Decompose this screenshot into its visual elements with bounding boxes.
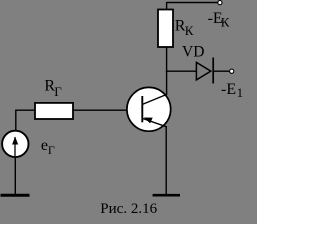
svg-text:Г: Г: [48, 143, 55, 157]
svg-text:VD: VD: [182, 44, 204, 61]
svg-text:К: К: [185, 23, 194, 38]
svg-text:-E: -E: [221, 81, 236, 98]
svg-text:1: 1: [237, 85, 244, 100]
svg-text:Рис. 2.16: Рис. 2.16: [100, 201, 157, 217]
svg-text:Г: Г: [54, 84, 62, 99]
svg-text:К: К: [221, 14, 230, 29]
